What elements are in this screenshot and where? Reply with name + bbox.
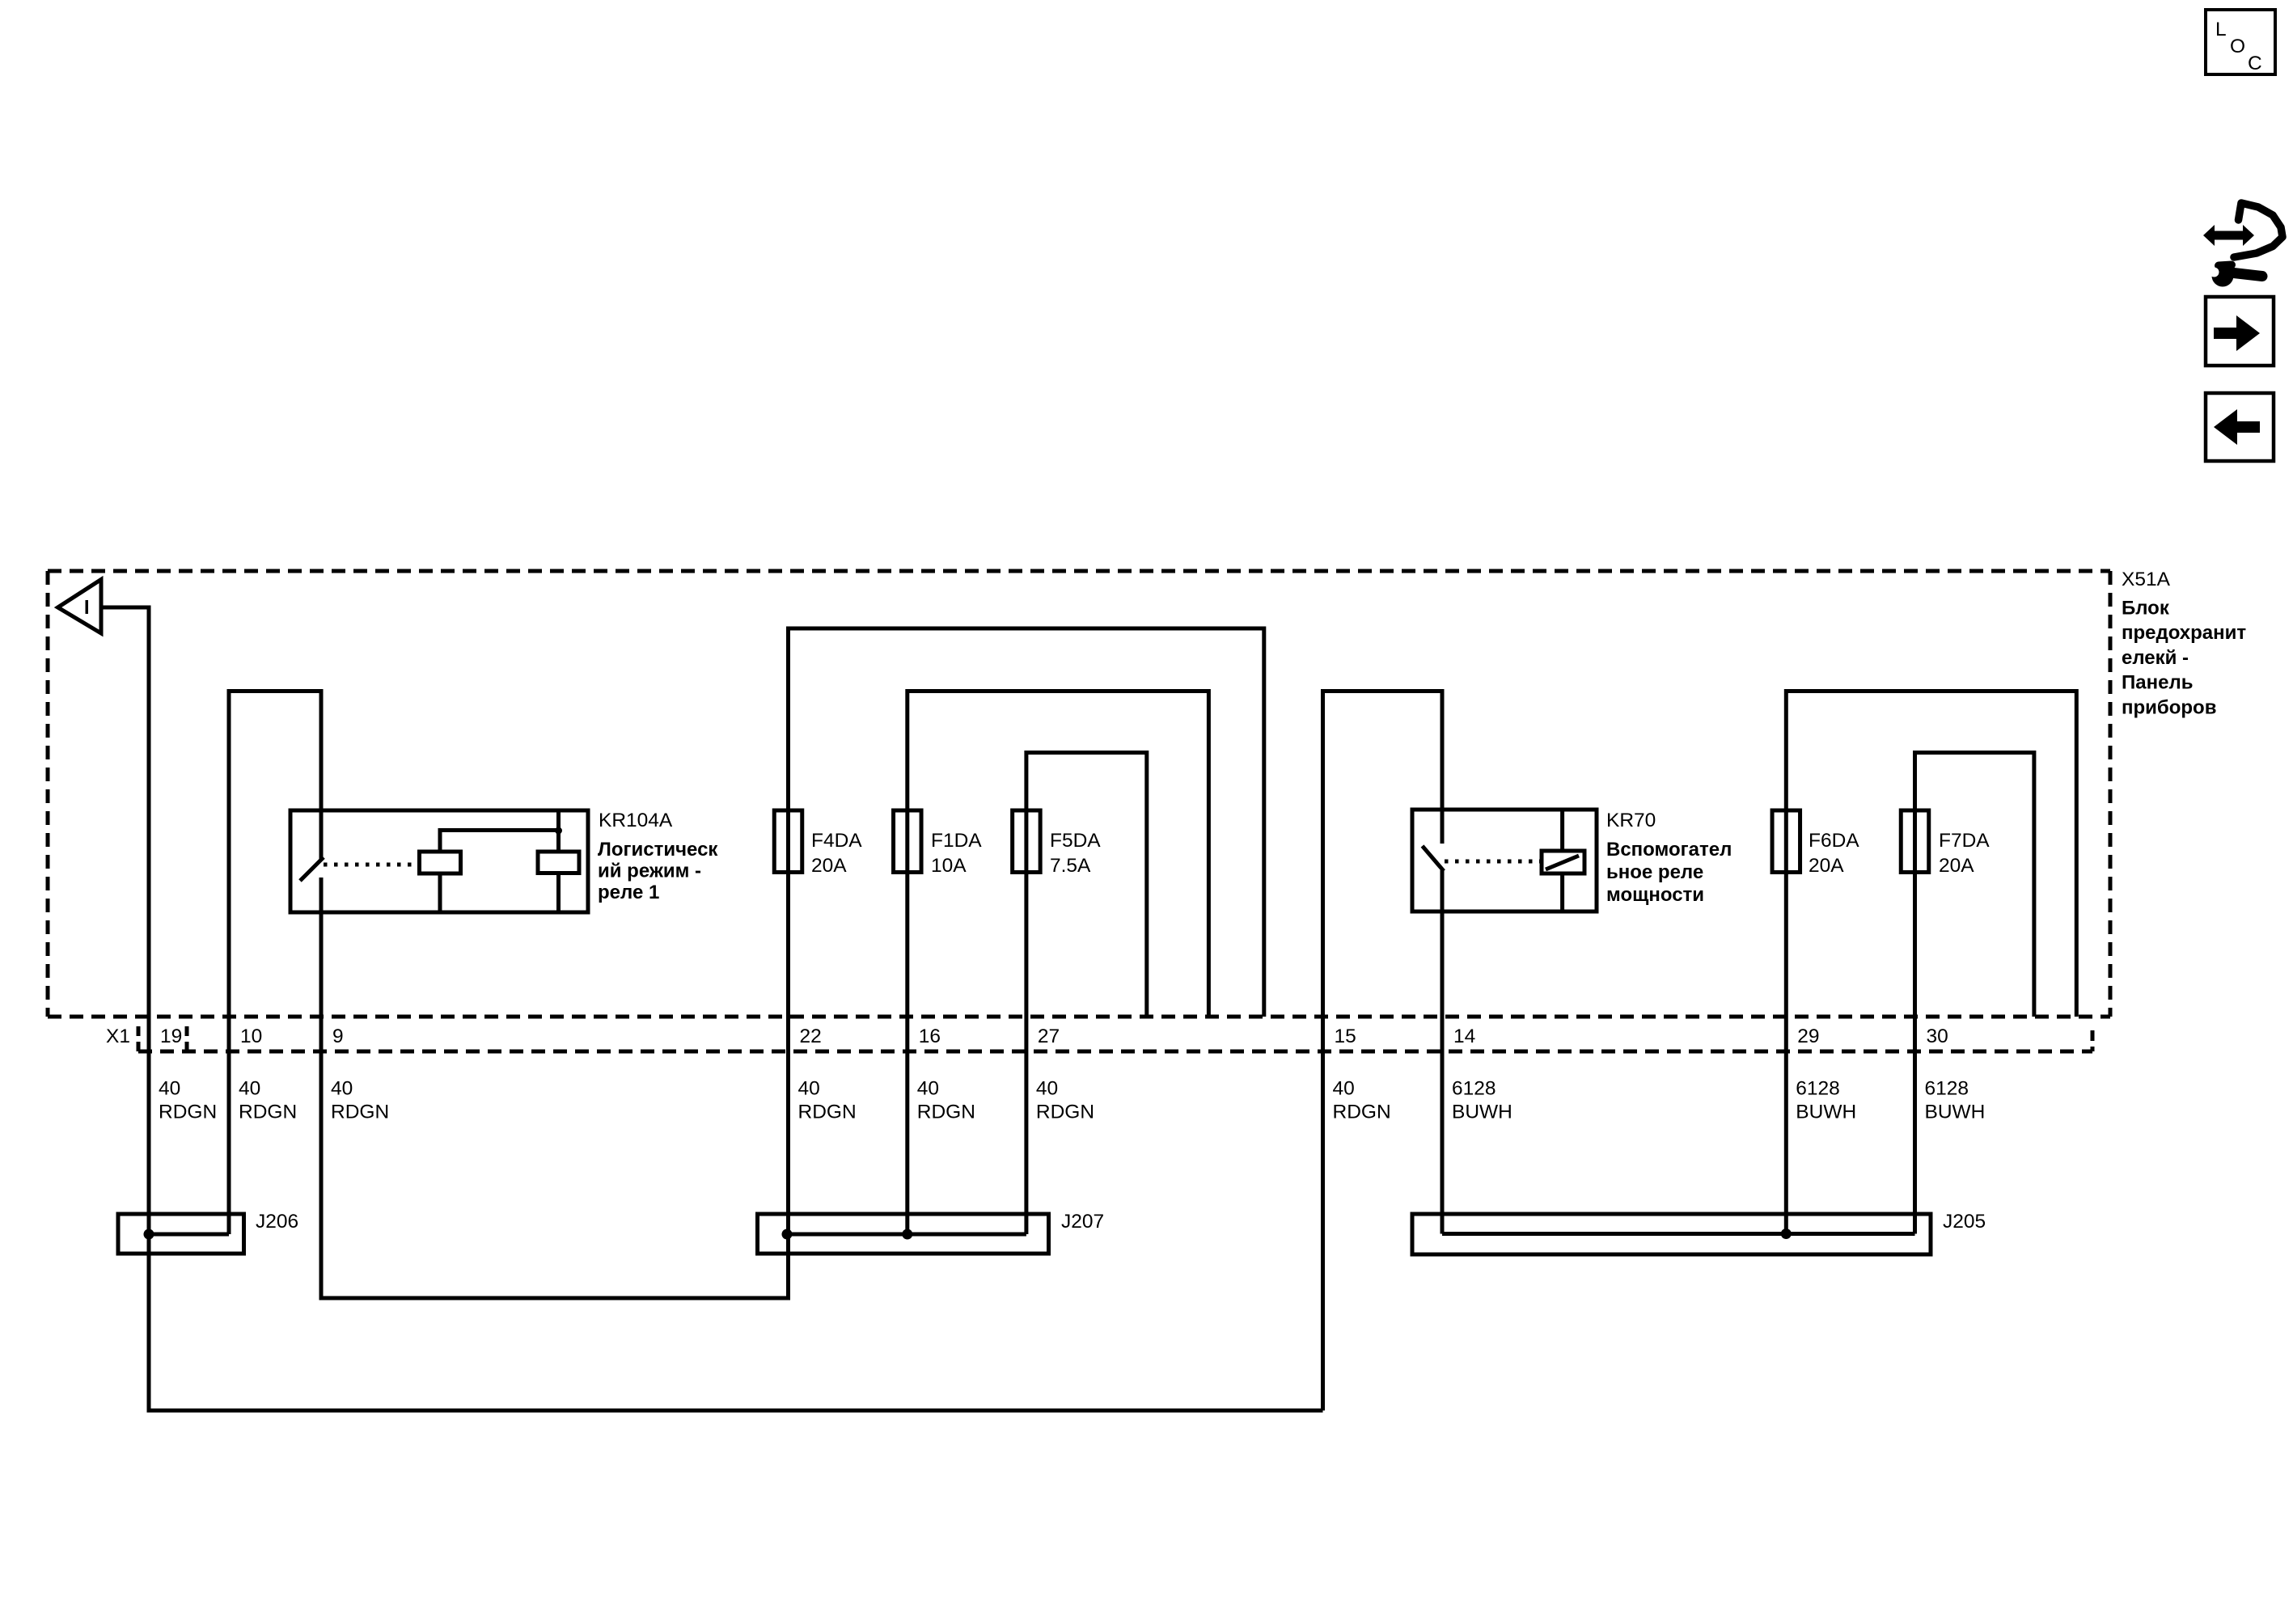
fuse F1DA labels <box>931 830 982 877</box>
svg-text:BUWH: BUWH <box>1796 1102 1856 1123</box>
svg-text:Логистическ: Логистическ <box>598 839 718 861</box>
svg-text:20A: 20A <box>1809 855 1844 877</box>
svg-text:X1: X1 <box>106 1026 130 1047</box>
svg-text:22: 22 <box>800 1026 822 1047</box>
wire label 40 RDGN (pin 27) <box>1036 1078 1094 1123</box>
fuse F7DA <box>1901 810 1929 873</box>
wire: triangle to pin 19 vertical <box>101 607 149 1234</box>
svg-text:J206: J206 <box>256 1211 298 1233</box>
svg-text:RDGN: RDGN <box>1333 1102 1391 1123</box>
fuse F4DA labels <box>811 830 862 877</box>
fuse F4DA <box>774 810 802 873</box>
wire label 40 RDGN (pin 16) <box>917 1078 975 1123</box>
svg-text:мощности: мощности <box>1606 884 1704 906</box>
svg-text:C: C <box>2248 53 2262 74</box>
svg-text:X51A: X51A <box>2122 569 2171 590</box>
svg-text:Вспомогател: Вспомогател <box>1606 839 1732 861</box>
svg-text:40: 40 <box>239 1078 260 1100</box>
svg-text:F4DA: F4DA <box>811 830 862 852</box>
svg-text:7.5A: 7.5A <box>1050 855 1091 877</box>
back arrow box <box>2206 393 2274 461</box>
wire label 40 RDGN (pin 15) <box>1333 1078 1391 1123</box>
svg-text:Панель: Панель <box>2122 672 2193 694</box>
wire: F1DA top loop to block edge stub <box>907 691 1209 1235</box>
svg-text:6128: 6128 <box>1796 1078 1840 1100</box>
wire label 40 RDGN (pin 9) <box>331 1078 389 1123</box>
svg-text:елекй -: елекй - <box>2122 647 2189 669</box>
fuse block X51A dashed outline <box>48 571 2110 1017</box>
wire: F4DA top loop to block edge stub <box>789 628 1264 1234</box>
svg-text:KR70: KR70 <box>1606 810 1656 831</box>
wire label 6128 BUWH (pin 14) <box>1452 1078 1512 1123</box>
svg-text:F6DA: F6DA <box>1809 830 1859 852</box>
svg-text:RDGN: RDGN <box>917 1102 975 1123</box>
wire: relay KR104A common lower / pin 9 to J207 <box>321 878 789 1298</box>
fuse F6DA <box>1772 810 1800 873</box>
fuse F6DA labels <box>1809 830 1859 877</box>
wire: relay KR70 common lower / pin 14 to J205 <box>1441 870 1445 1234</box>
svg-text:40: 40 <box>159 1078 180 1100</box>
svg-text:L: L <box>2215 19 2227 40</box>
forward arrow box <box>2206 297 2274 366</box>
relay KR70 labels <box>1606 810 1732 906</box>
relay KR70 <box>1412 810 1597 911</box>
splice bar J206 <box>118 1211 298 1254</box>
svg-text:6128: 6128 <box>1452 1078 1496 1100</box>
fuse F1DA <box>894 810 922 873</box>
wire label 40 RDGN (pin 22) <box>798 1078 857 1123</box>
svg-text:реле 1: реле 1 <box>598 882 659 903</box>
svg-text:20A: 20A <box>811 855 847 877</box>
LOC reference box <box>2206 10 2275 74</box>
svg-text:F7DA: F7DA <box>1939 830 1990 852</box>
svg-text:27: 27 <box>1038 1026 1060 1047</box>
svg-text:10A: 10A <box>931 855 967 877</box>
splice bar J205 <box>1412 1211 1986 1254</box>
svg-text:RDGN: RDGN <box>331 1102 389 1123</box>
wire: pin 15 vertical with loop to relay KR70 common <box>1323 691 1443 1411</box>
wire label 6128 BUWH (pin 29) <box>1796 1078 1856 1123</box>
wire: pin 10 vertical with loop to relay KR104A common <box>229 691 321 1235</box>
wire: F5DA top loop to block edge stub <box>1026 753 1147 1235</box>
fuse F5DA <box>1013 810 1041 873</box>
wire label 6128 BUWH (pin 30) <box>1925 1078 1986 1123</box>
svg-text:RDGN: RDGN <box>798 1102 857 1123</box>
svg-text:15: 15 <box>1335 1026 1356 1047</box>
svg-text:14: 14 <box>1453 1026 1475 1047</box>
svg-text:10: 10 <box>240 1026 262 1047</box>
svg-text:Блок: Блок <box>2122 598 2170 620</box>
svg-text:F5DA: F5DA <box>1050 830 1101 852</box>
fuse block X51A labels <box>2122 569 2246 718</box>
fuse F5DA labels <box>1050 830 1101 877</box>
svg-text:19: 19 <box>160 1026 182 1047</box>
svg-text:O: O <box>2230 36 2245 57</box>
power feed triangle I <box>58 580 102 634</box>
svg-text:RDGN: RDGN <box>159 1102 217 1123</box>
svg-text:9: 9 <box>332 1026 344 1047</box>
svg-text:40: 40 <box>331 1078 353 1100</box>
svg-text:F1DA: F1DA <box>931 830 982 852</box>
svg-text:предохранит: предохранит <box>2122 622 2246 644</box>
svg-text:20A: 20A <box>1939 855 1974 877</box>
connector X1 dashed row <box>138 1026 2092 1051</box>
svg-text:16: 16 <box>919 1026 941 1047</box>
svg-text:ий режим -: ий режим - <box>598 861 701 882</box>
svg-text:RDGN: RDGN <box>1036 1102 1094 1123</box>
svg-text:ьное реле: ьное реле <box>1606 861 1703 883</box>
wire: F6DA top loop to block edge stub <box>1786 691 2076 1234</box>
svg-text:J207: J207 <box>1061 1211 1104 1233</box>
svg-text:29: 29 <box>1797 1026 1819 1047</box>
svg-text:40: 40 <box>1036 1078 1058 1100</box>
svg-text:40: 40 <box>798 1078 820 1100</box>
svg-text:40: 40 <box>1333 1078 1355 1100</box>
svg-text:BUWH: BUWH <box>1452 1102 1512 1123</box>
diagnostic reroute icon (double arrow, hook, wrench) <box>2203 203 2282 287</box>
wire: ground bus J206 to pin 15 bottom run <box>149 1234 1323 1410</box>
fuse F7DA labels <box>1939 830 1990 877</box>
svg-text:40: 40 <box>917 1078 939 1100</box>
wire label 40 RDGN (pin 19) <box>159 1078 217 1123</box>
splice bar J207 <box>758 1211 1105 1254</box>
svg-text:RDGN: RDGN <box>239 1102 297 1123</box>
svg-text:приборов: приборов <box>2122 696 2216 718</box>
relay KR104A <box>290 810 588 912</box>
svg-text:J205: J205 <box>1943 1211 1986 1233</box>
svg-text:6128: 6128 <box>1925 1078 1969 1100</box>
relay KR104A labels <box>598 810 718 903</box>
wire label 40 RDGN (pin 10) <box>239 1078 297 1123</box>
svg-text:KR104A: KR104A <box>599 810 673 831</box>
svg-text:30: 30 <box>1927 1026 1948 1047</box>
wire: F7DA top loop to block edge stub <box>1915 753 2034 1234</box>
svg-text:BUWH: BUWH <box>1925 1102 1986 1123</box>
